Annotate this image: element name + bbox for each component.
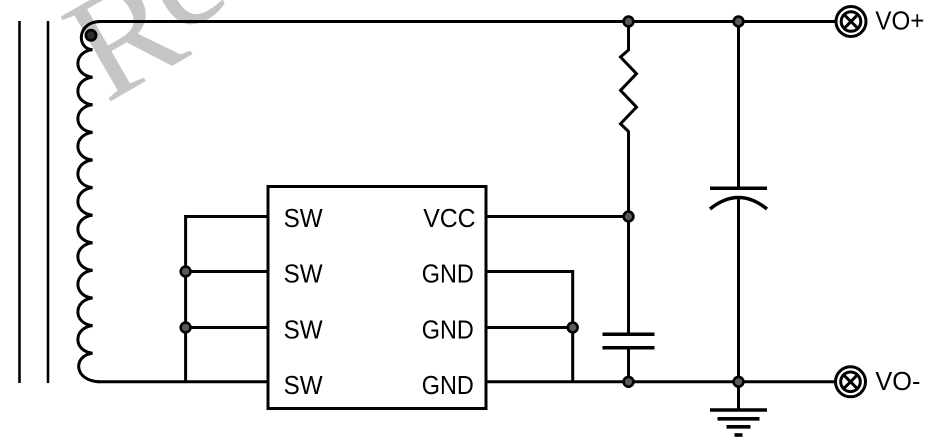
- phase dot: [86, 30, 96, 40]
- svg-text:SW: SW: [284, 259, 323, 289]
- IC U1 box: [268, 187, 486, 409]
- core line left: [18, 21, 21, 383]
- wire SW3: [186, 326, 268, 329]
- svg-text:VO-: VO-: [875, 366, 920, 396]
- wire ground stub: [737, 382, 740, 410]
- wire VCC: [486, 215, 629, 218]
- resistor R1: [621, 22, 637, 335]
- junction dot top C1: [734, 17, 744, 27]
- junction dot SW3: [181, 323, 191, 333]
- wire C2 bottom: [627, 348, 630, 382]
- inductor L1 winding: [78, 22, 100, 382]
- wire SW2: [186, 270, 268, 273]
- capacitor C1 polarized: [710, 188, 767, 209]
- junction dot top R: [624, 17, 634, 27]
- wire top bus: [98, 20, 836, 23]
- svg-text:SW: SW: [284, 203, 323, 233]
- svg-text:SW: SW: [284, 314, 323, 344]
- svg-text:SW: SW: [284, 370, 323, 400]
- ground symbol: [710, 410, 767, 435]
- junction dot VCC: [624, 212, 634, 222]
- wire C1 top: [737, 22, 740, 189]
- svg-text:GND: GND: [422, 259, 474, 289]
- wire bottom bus right: [486, 380, 836, 383]
- svg-text:GND: GND: [422, 314, 474, 344]
- terminal VO+: [836, 7, 866, 37]
- junction dot SW2: [181, 267, 191, 277]
- junction dot GND2: [568, 323, 578, 333]
- capacitor C2 plates: [603, 334, 655, 347]
- svg-text:VO+: VO+: [875, 6, 924, 36]
- junction dot bus GNDSYM: [734, 377, 744, 387]
- wire SW bus vertical: [186, 217, 268, 382]
- wire GND2: [486, 326, 573, 329]
- wire bottom bus left: [98, 380, 268, 383]
- core line right: [47, 21, 50, 383]
- junction dot bus C2: [624, 377, 634, 387]
- terminal VO-: [836, 367, 866, 397]
- svg-text:GND: GND: [422, 370, 474, 400]
- svg-text:VCC: VCC: [423, 203, 475, 233]
- wire GND1 to GND bus: [486, 272, 573, 382]
- wire C1 bottom: [737, 199, 740, 382]
